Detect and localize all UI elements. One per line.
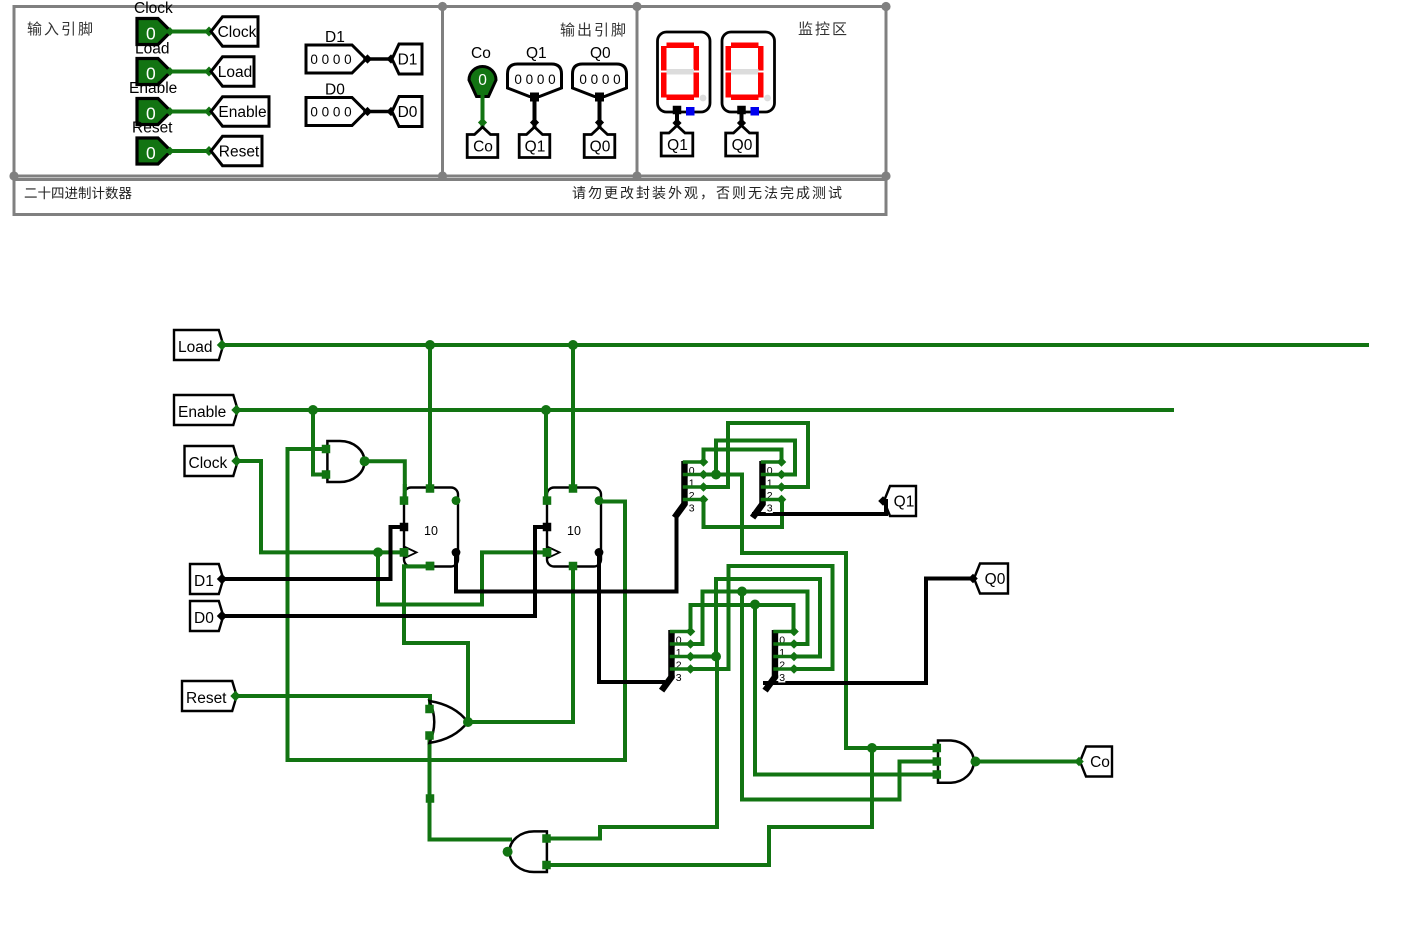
svg-text:输出引脚: 输出引脚 xyxy=(560,22,628,39)
svg-text:Load: Load xyxy=(135,41,169,58)
svg-text:0 0 0 0: 0 0 0 0 xyxy=(310,52,351,67)
svg-text:0 0 0 0: 0 0 0 0 xyxy=(579,72,620,87)
svg-text:10: 10 xyxy=(567,524,581,538)
svg-text:Q1: Q1 xyxy=(526,45,547,62)
svg-text:3: 3 xyxy=(767,503,773,515)
svg-text:Reset: Reset xyxy=(132,120,173,137)
svg-text:D0: D0 xyxy=(398,104,418,121)
svg-text:Enable: Enable xyxy=(129,80,177,97)
svg-text:Q1: Q1 xyxy=(525,139,546,156)
svg-text:D1: D1 xyxy=(325,29,345,46)
svg-text:Q0: Q0 xyxy=(590,139,611,156)
svg-text:请勿更改封装外观，否则无法完成测试: 请勿更改封装外观，否则无法完成测试 xyxy=(572,185,844,201)
svg-text:Q0: Q0 xyxy=(732,137,753,154)
svg-text:Co: Co xyxy=(1090,754,1110,771)
svg-text:二十四进制计数器: 二十四进制计数器 xyxy=(24,186,132,201)
svg-text:Load: Load xyxy=(218,64,252,81)
svg-text:D1: D1 xyxy=(398,52,418,69)
svg-text:Q1: Q1 xyxy=(894,494,915,511)
svg-text:D1: D1 xyxy=(194,573,214,590)
svg-text:0 0 0 0: 0 0 0 0 xyxy=(514,72,555,87)
svg-text:0: 0 xyxy=(478,72,487,89)
svg-text:Q0: Q0 xyxy=(985,571,1006,588)
svg-text:输入引脚: 输入引脚 xyxy=(27,21,95,38)
svg-text:Clock: Clock xyxy=(189,455,228,472)
svg-text:0: 0 xyxy=(146,143,156,163)
svg-text:D0: D0 xyxy=(194,610,214,627)
svg-text:Reset: Reset xyxy=(219,144,260,161)
svg-text:Enable: Enable xyxy=(218,104,266,121)
svg-text:Co: Co xyxy=(473,139,493,156)
svg-text:Enable: Enable xyxy=(178,404,226,421)
svg-text:D0: D0 xyxy=(325,82,345,99)
svg-text:Load: Load xyxy=(178,339,212,356)
svg-text:Clock: Clock xyxy=(218,24,257,41)
svg-text:Clock: Clock xyxy=(134,0,173,17)
svg-text:Co: Co xyxy=(471,45,491,62)
svg-text:监控区: 监控区 xyxy=(798,21,849,38)
svg-text:Q1: Q1 xyxy=(667,137,688,154)
svg-text:Reset: Reset xyxy=(186,690,227,707)
svg-text:3: 3 xyxy=(676,672,682,684)
svg-text:10: 10 xyxy=(424,524,438,538)
svg-text:0 0 0 0: 0 0 0 0 xyxy=(310,105,351,120)
svg-text:Q0: Q0 xyxy=(590,45,611,62)
svg-text:3: 3 xyxy=(689,503,695,515)
svg-text:3: 3 xyxy=(779,672,785,684)
